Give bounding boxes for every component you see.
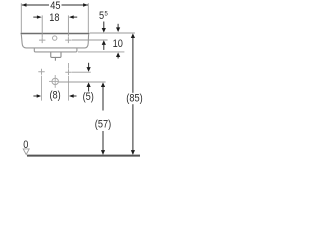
dim (8) right outside arrow xyxy=(73,95,76,97)
dim 10 lower arrow xyxy=(116,52,120,57)
dim 18 extension line left xyxy=(41,15,43,37)
supply cross right lower xyxy=(65,69,71,75)
dim (57) line lower xyxy=(102,131,104,154)
dim (57) line upper xyxy=(101,82,105,87)
svg-text:(85): (85) xyxy=(126,93,142,105)
washbasin rim top edge xyxy=(21,33,90,35)
svg-text:10: 10 xyxy=(113,39,124,51)
dim 45 line xyxy=(22,4,49,6)
basin bottom tier 2 xyxy=(34,48,77,52)
tier2 bottom extension line right xyxy=(78,51,125,53)
dim (85) line upper xyxy=(131,33,135,38)
drain leader line xyxy=(59,81,106,83)
svg-text:(8): (8) xyxy=(49,90,60,102)
lower right cross leader xyxy=(72,71,91,73)
dim 18 extension line right xyxy=(67,15,69,36)
centerline below right cross xyxy=(68,76,70,101)
drain stub below trap xyxy=(54,58,56,61)
rim top extension line to the right xyxy=(90,32,135,34)
supply cross left lower xyxy=(38,69,44,75)
centerline above right cross xyxy=(68,63,70,69)
svg-text:45: 45 xyxy=(50,1,61,13)
floor baseline xyxy=(27,155,140,157)
washbasin body outline xyxy=(21,34,88,48)
dim (85) line lower xyxy=(132,104,134,154)
centerline below left cross xyxy=(41,76,43,101)
dim 45 extension line left xyxy=(20,3,22,33)
svg-text:(57): (57) xyxy=(95,119,111,131)
siphon trap tier 3 xyxy=(51,52,61,57)
dim 45 extension line right xyxy=(87,3,89,33)
dim 10 upper arrow xyxy=(117,24,119,28)
datum triangle xyxy=(23,149,29,155)
dim (8) left outside arrow xyxy=(33,95,37,97)
overflow hole circle xyxy=(53,36,57,40)
dim 45 arrow left xyxy=(22,3,27,6)
tap hole cross left xyxy=(39,37,45,43)
dim 18 left outside arrow xyxy=(33,16,37,18)
dim (5) lower arrow xyxy=(87,82,91,87)
dim 18 right outside arrow xyxy=(73,16,77,18)
svg-text:5: 5 xyxy=(105,10,109,17)
dim 45 arrow right xyxy=(83,3,88,6)
drain connection circle-cross xyxy=(52,78,58,84)
tap hole leader line right xyxy=(72,39,108,41)
svg-text:(5): (5) xyxy=(83,91,94,103)
dim 5.5 lower arrow xyxy=(102,40,106,45)
svg-text:18: 18 xyxy=(49,12,60,24)
dim (5) upper arrow xyxy=(88,63,90,68)
dim 5.5 upper arrow xyxy=(103,22,105,29)
tap hole cross right xyxy=(65,37,71,43)
